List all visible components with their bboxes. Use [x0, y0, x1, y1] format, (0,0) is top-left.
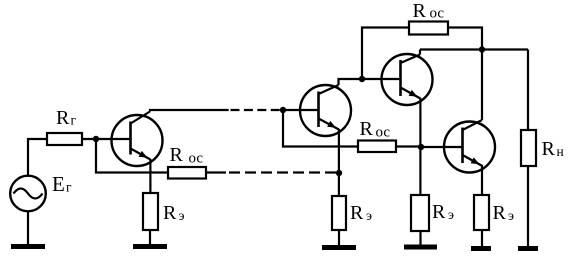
resistor Rос (stage 1 feedback)	[168, 167, 206, 179]
svg-text:э: э	[448, 208, 454, 223]
label Rэ (stage 3)	[432, 201, 454, 223]
wire Rэ3 to ground	[419, 231, 421, 246]
svg-text:R: R	[350, 202, 364, 224]
ground (load)	[518, 246, 538, 251]
svg-text:R: R	[360, 118, 374, 140]
node emitter Q3 / base Q4	[418, 144, 424, 150]
label Rг	[56, 107, 77, 129]
svg-text:R: R	[432, 201, 446, 223]
resistor Rос (stage 2 feedback)	[358, 141, 396, 153]
svg-text:г: г	[66, 180, 72, 195]
label Rн	[542, 138, 564, 160]
wire base node to Q2	[283, 109, 319, 111]
svg-text:R: R	[56, 107, 70, 129]
wire source bottom to ground	[27, 211, 29, 247]
wire Rос2 to emitter node Q3	[396, 145, 421, 147]
wire Q2 emitter down	[338, 129, 340, 196]
wire Rэ1 to ground	[149, 230, 151, 245]
dashed wire to emitter node of Q2	[229, 171, 336, 173]
svg-text:ос: ос	[189, 151, 204, 167]
ground (stage 1)	[133, 244, 167, 249]
wire Q4 collector up to node	[481, 50, 483, 121]
wire base node down	[96, 139, 168, 173]
svg-text:ос: ос	[430, 6, 445, 22]
svg-text:R: R	[493, 202, 507, 224]
svg-text:э: э	[179, 209, 185, 224]
wire base Q2 node down	[283, 110, 358, 147]
wire Rэ4 to ground	[481, 230, 483, 248]
svg-text:E: E	[52, 172, 65, 196]
svg-text:ос: ос	[376, 125, 391, 141]
svg-text:н: н	[557, 144, 564, 159]
transistor Q1	[112, 112, 163, 167]
wire Q3 emitter down through node to Rэ3	[419, 98, 421, 195]
wire source top to Rг row	[28, 139, 47, 176]
label Rос (stage 2)	[360, 118, 391, 141]
svg-text:г: г	[71, 113, 77, 128]
label Rэ (stage 4)	[493, 202, 515, 224]
label Rос (stage 1)	[170, 144, 204, 167]
svg-text:R: R	[413, 0, 427, 22]
resistor Rэ (stage 4)	[474, 195, 489, 230]
transistor Q3	[382, 50, 433, 106]
wire Rэ2 to ground	[338, 230, 340, 246]
label Rэ (stage 1)	[163, 202, 185, 224]
wire top row right corner down to Rн	[527, 50, 529, 131]
resistor Rос (stage 3 feedback, top)	[409, 22, 448, 35]
ground (stage 4)	[471, 246, 491, 251]
ground (stage 3)	[404, 245, 437, 250]
AC source Eг	[10, 176, 46, 212]
transistor Q2	[300, 85, 351, 136]
resistor Rн (load)	[521, 130, 536, 166]
wire Rг to Q1 base	[82, 138, 131, 140]
wire collector row y=49.5	[420, 48, 528, 50]
node collector Q3/Q4	[479, 46, 485, 52]
resistor Rг	[47, 133, 82, 145]
node emitter Q2	[336, 170, 342, 176]
node base Q1	[93, 136, 99, 142]
wire Q1 emitter down to Rэ	[149, 159, 151, 193]
svg-text:э: э	[366, 209, 372, 224]
label Eг	[52, 172, 72, 196]
svg-text:R: R	[542, 138, 556, 160]
wire base node Q3 to Q3	[362, 78, 402, 80]
resistor Rэ (stage 3)	[411, 195, 429, 231]
resistor Rэ (stage 1)	[143, 193, 158, 230]
svg-text:R: R	[163, 202, 177, 224]
wire Q2 collector up to row	[339, 79, 363, 85]
resistor Rэ (stage 2)	[332, 196, 346, 230]
wire node to Q4 base	[421, 146, 464, 148]
dashed wire collector Q1 to base Q2	[231, 109, 282, 111]
wire Q1 collector to top line	[150, 110, 229, 112]
wire Q4 emitter down to Rэ4	[481, 165, 483, 195]
svg-text:э: э	[508, 209, 514, 224]
label Rэ (stage 2)	[350, 202, 372, 224]
ground (stage 2)	[322, 245, 356, 250]
node base Q2	[280, 107, 286, 113]
wire base Q3 up to Rос3	[362, 28, 409, 80]
wire Rн to ground	[527, 166, 529, 248]
transistor Q4	[444, 120, 495, 173]
label Rос (stage 3)	[413, 0, 445, 22]
svg-text:R: R	[170, 144, 184, 166]
wire Rос3 right down to collector node	[448, 28, 482, 49]
wire Rос1 right solid	[206, 171, 226, 173]
ground (source)	[11, 244, 45, 249]
node base Q3	[359, 76, 365, 82]
